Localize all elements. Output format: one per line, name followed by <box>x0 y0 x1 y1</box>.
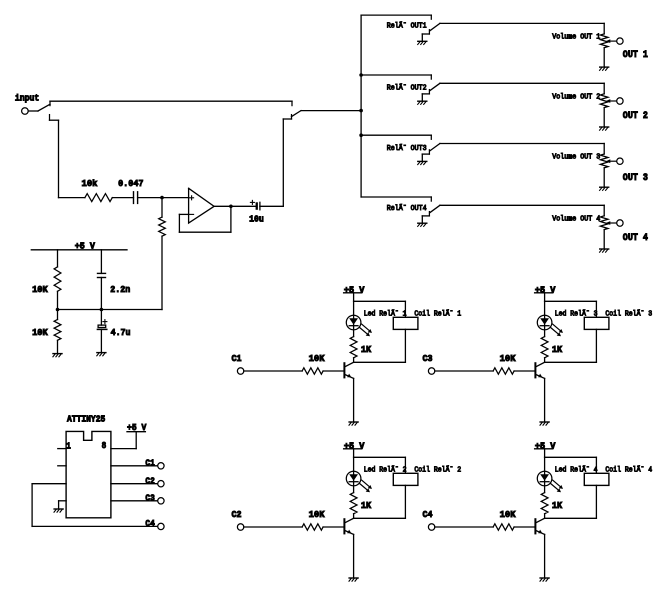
wire bus <box>360 15 362 197</box>
capacitor 2.2n <box>98 272 106 274</box>
relay contact K3 arm <box>430 144 440 151</box>
relay contact K3 NC tick <box>428 150 430 154</box>
ground row 2 <box>418 100 427 102</box>
transistor Q3 collector <box>536 362 545 367</box>
wire +5V tick <box>344 448 362 450</box>
relay coil RelÃ¨ 2 <box>393 473 418 485</box>
wire <box>31 484 33 527</box>
wire <box>161 236 163 309</box>
input jack switch arm <box>38 104 50 111</box>
wire <box>161 198 163 218</box>
wire <box>603 205 605 216</box>
terminal C4 <box>428 524 434 530</box>
wire +5V tick <box>127 431 145 433</box>
transistor Q1 base bar <box>343 363 345 377</box>
ground row 4 <box>418 222 427 224</box>
svg-text:8: 8 <box>102 440 107 451</box>
LED D3 <box>537 315 552 330</box>
wire <box>544 449 546 458</box>
transistor Q3 base bar <box>534 363 536 377</box>
terminal C1 <box>158 463 164 469</box>
wire to coil <box>354 456 406 458</box>
svg-text:input: input <box>15 92 39 103</box>
op-amp - input mark <box>190 213 194 215</box>
wire to coil <box>545 300 597 302</box>
node junction <box>229 205 233 209</box>
capacitor 10u polarity <box>250 201 254 203</box>
wire <box>100 310 102 326</box>
wire <box>603 168 605 187</box>
wire <box>544 514 546 519</box>
svg-text:2.2n: 2.2n <box>110 284 130 295</box>
LED arrow <box>551 484 560 491</box>
wire <box>545 361 597 363</box>
svg-text:10K: 10K <box>500 509 516 520</box>
resistor 10k <box>85 194 112 202</box>
terminal C4 <box>158 523 164 529</box>
svg-text:1K: 1K <box>361 344 372 355</box>
resistor 1K <box>350 337 357 358</box>
ground row 3 <box>418 160 427 162</box>
resistor 1K <box>541 493 548 514</box>
terminal C3 <box>158 498 164 504</box>
wire <box>57 250 59 267</box>
svg-text:C2: C2 <box>232 509 242 520</box>
potentiometer wiper <box>610 222 617 224</box>
ground emitter 2 <box>349 577 358 579</box>
output terminal OUT 3 <box>617 158 623 164</box>
wire <box>58 120 60 197</box>
relay contact K2 NC tick <box>428 90 430 94</box>
wire <box>435 370 493 372</box>
svg-text:Volume OUT 1: Volume OUT 1 <box>552 33 600 41</box>
wire row 3 out <box>440 143 604 145</box>
wire to coil <box>545 456 597 458</box>
svg-text:C3: C3 <box>145 493 155 504</box>
wire <box>544 293 546 302</box>
capacitor 4.7u <box>98 325 106 327</box>
LED D4 <box>537 471 552 486</box>
svg-text:0.047: 0.047 <box>118 178 143 189</box>
wire <box>353 514 355 519</box>
svg-text:ATTINY25: ATTINY25 <box>67 414 106 425</box>
resistor 1K <box>541 337 548 358</box>
wire row 3 common <box>361 134 431 136</box>
wire tick <box>291 101 293 105</box>
wire <box>353 301 355 336</box>
relay coil RelÃ¨ 3 <box>584 317 609 329</box>
relay contact K2 arm <box>430 83 440 90</box>
wire <box>112 197 133 199</box>
wire <box>603 83 605 94</box>
transistor Q4 collector <box>536 518 545 523</box>
LED arrow <box>360 484 369 491</box>
wire <box>353 449 355 458</box>
wire junction row <box>58 309 163 311</box>
relay contact K3 NC bracket <box>422 153 429 155</box>
wire pin8 +5V <box>111 448 136 450</box>
wire <box>244 526 302 528</box>
svg-text:10u: 10u <box>249 214 264 225</box>
wire <box>138 197 189 199</box>
wire <box>28 110 38 112</box>
wire op-amp output <box>214 205 256 207</box>
wire feedback <box>179 213 188 215</box>
svg-text:Volume OUT 3: Volume OUT 3 <box>552 154 600 162</box>
LED arrow <box>553 324 562 331</box>
node junction <box>100 308 104 312</box>
svg-text:C2: C2 <box>145 475 154 486</box>
terminal C2 <box>158 481 164 487</box>
svg-text:RelÃ¨ OUT4: RelÃ¨ OUT4 <box>387 204 427 213</box>
transistor Q2 collector <box>345 518 354 523</box>
relay contact K4 arm <box>430 205 440 212</box>
wire <box>323 526 344 528</box>
relay coil RelÃ¨ 1 <box>393 317 418 329</box>
capacitor 10u <box>256 202 258 210</box>
wire <box>514 370 535 372</box>
ground pot 2 <box>600 126 609 128</box>
svg-text:1K: 1K <box>552 500 563 511</box>
ground emitter 4 <box>540 577 549 579</box>
node junction <box>56 308 60 312</box>
ground pot 3 <box>600 186 609 188</box>
LED D2 <box>346 471 361 486</box>
resistor (bias) <box>159 217 166 236</box>
ground <box>97 352 106 354</box>
wire <box>100 278 102 310</box>
wire <box>544 457 546 492</box>
wire <box>435 526 493 528</box>
out jack NC contact <box>283 118 291 120</box>
wire <box>595 485 597 518</box>
wire <box>57 340 59 353</box>
svg-text:+5 V: +5 V <box>344 440 365 451</box>
svg-text:10K: 10K <box>309 509 325 520</box>
wire pin5 C3 <box>111 500 158 502</box>
relay contact K4 NC tick <box>428 212 430 216</box>
svg-text:1K: 1K <box>361 500 372 511</box>
wire +5V tick <box>535 448 553 450</box>
svg-text:10K: 10K <box>309 353 325 364</box>
svg-text:1: 1 <box>66 440 71 451</box>
ground pot 4 <box>600 248 609 250</box>
wire row 2 out <box>440 82 604 84</box>
wire <box>260 205 283 207</box>
wire <box>323 370 344 372</box>
wire <box>603 230 605 249</box>
input jack tip terminal <box>22 108 29 115</box>
wire <box>353 378 355 421</box>
svg-text:OUT 1: OUT 1 <box>623 50 648 61</box>
transistor Q2 base bar <box>343 519 345 533</box>
wire <box>603 23 605 34</box>
capacitor 0.047 <box>133 192 135 204</box>
svg-text:+5 V: +5 V <box>535 440 556 451</box>
potentiometer wiper <box>610 100 617 102</box>
wire pin1 <box>58 448 66 450</box>
wire row 1 common <box>361 14 431 16</box>
ground <box>53 353 62 355</box>
resistor 10K base 3 <box>493 368 514 374</box>
wire <box>57 310 59 320</box>
relay contact K4 NC bracket <box>422 215 429 217</box>
svg-text:Volume OUT 2: Volume OUT 2 <box>552 93 600 101</box>
wire row 1 out <box>440 22 604 24</box>
wire <box>545 517 597 519</box>
out jack switch arm <box>292 111 302 117</box>
svg-text:RelÃ¨ OUT1: RelÃ¨ OUT1 <box>387 22 427 31</box>
wire <box>354 517 406 519</box>
resistor 1K <box>350 493 357 514</box>
resistor 10K upper <box>54 267 61 291</box>
wire <box>230 206 232 232</box>
svg-text:RelÃ¨ OUT2: RelÃ¨ OUT2 <box>387 83 427 92</box>
svg-text:+5 V: +5 V <box>344 284 365 295</box>
transistor Q1 emitter <box>345 375 354 379</box>
capacitor 4.7u polarity <box>103 321 107 323</box>
wire <box>353 457 355 492</box>
potentiometer Volume OUT 2 <box>600 94 608 108</box>
wire <box>603 144 605 155</box>
wire row 4 common <box>361 196 431 198</box>
svg-text:10K: 10K <box>32 327 48 338</box>
svg-text:C1: C1 <box>232 353 242 364</box>
relay contact K1 arm <box>430 23 440 30</box>
svg-text:10K: 10K <box>32 284 48 295</box>
wire <box>595 329 597 362</box>
node junction <box>359 109 363 113</box>
wire <box>353 534 355 577</box>
transistor Q3 emitter <box>536 375 545 379</box>
wire +5V tick <box>344 292 362 294</box>
wire pin4 gnd <box>59 500 67 502</box>
wire <box>282 119 284 206</box>
node junction <box>359 133 363 137</box>
wire <box>244 370 302 372</box>
wire pin7 C1 <box>111 465 158 467</box>
svg-text:OUT 3: OUT 3 <box>623 173 648 184</box>
svg-text:4.7u: 4.7u <box>111 327 131 338</box>
LED arrow <box>362 480 371 487</box>
wire <box>59 197 85 199</box>
svg-text:OUT 4: OUT 4 <box>623 233 648 244</box>
op-amp U1 <box>189 188 215 223</box>
wire <box>100 250 102 274</box>
wire C4 net <box>32 525 158 527</box>
relay coil RelÃ¨ 4 <box>584 473 609 485</box>
potentiometer Volume OUT 1 <box>600 34 608 48</box>
op-amp + input mark <box>190 197 194 199</box>
potentiometer Volume OUT 3 <box>600 154 608 168</box>
wire pin3 <box>32 483 66 485</box>
LED arrow <box>551 328 560 335</box>
svg-text:C4: C4 <box>145 518 155 529</box>
IC ATTINY25 body <box>66 431 111 517</box>
transistor Q1 collector <box>345 362 354 367</box>
wire +5V tick <box>535 292 553 294</box>
output terminal OUT 4 <box>617 220 623 226</box>
svg-text:C3: C3 <box>423 353 433 364</box>
wire <box>100 329 102 352</box>
wire <box>354 361 406 363</box>
transistor Q2 emitter <box>345 531 354 535</box>
svg-text:10k: 10k <box>82 178 98 189</box>
relay contact K2 NC bracket <box>422 93 429 95</box>
svg-text:RelÃ¨ OUT3: RelÃ¨ OUT3 <box>387 144 427 153</box>
wire <box>301 110 361 112</box>
wire <box>353 293 355 302</box>
input jack NC contact <box>49 115 51 121</box>
wire row 4 out <box>440 204 604 206</box>
wire +5V rail <box>31 249 127 251</box>
resistor 10K base 2 <box>302 524 323 530</box>
node junction <box>160 196 164 200</box>
wire <box>544 358 546 363</box>
ground row 1 <box>418 40 427 42</box>
resistor 10K lower <box>54 320 61 341</box>
wire <box>353 358 355 363</box>
terminal C2 <box>237 524 243 530</box>
wire <box>178 214 180 232</box>
wire <box>179 231 231 233</box>
svg-text:1K: 1K <box>552 344 563 355</box>
svg-text:+5 V: +5 V <box>535 284 556 295</box>
ground emitter 3 <box>540 421 549 423</box>
LED D1 <box>346 315 361 330</box>
wire tick <box>49 101 51 105</box>
wire <box>603 48 605 67</box>
wire <box>544 301 546 336</box>
LED arrow <box>362 324 371 331</box>
wire <box>57 291 59 309</box>
relay contact K1 NC tick <box>428 30 430 34</box>
wire <box>404 329 406 362</box>
potentiometer wiper <box>610 160 617 162</box>
ground emitter 1 <box>349 421 358 423</box>
potentiometer Volume OUT 4 <box>600 216 608 230</box>
wire <box>544 534 546 577</box>
potentiometer wiper <box>610 40 617 42</box>
output terminal OUT 2 <box>617 98 623 104</box>
node junction <box>359 73 363 77</box>
transistor Q4 base bar <box>534 519 536 533</box>
resistor 10K base 1 <box>302 368 323 374</box>
wire pin2 <box>58 465 66 467</box>
wire <box>514 526 535 528</box>
LED arrow <box>553 480 562 487</box>
terminal C3 <box>428 368 434 374</box>
output terminal OUT 1 <box>617 38 623 44</box>
svg-text:Volume OUT 4: Volume OUT 4 <box>552 215 600 223</box>
relay contact K1 NC bracket <box>422 33 429 35</box>
wire <box>404 485 406 518</box>
svg-text:C4: C4 <box>423 509 433 520</box>
wire to coil <box>354 300 406 302</box>
wire pin6 C2 <box>111 483 158 485</box>
wire row 2 common <box>361 74 431 76</box>
transistor Q4 emitter <box>536 531 545 535</box>
LED arrow <box>360 328 369 335</box>
ground IC <box>54 508 63 510</box>
svg-text:10K: 10K <box>500 353 516 364</box>
svg-text:C1: C1 <box>145 458 155 469</box>
wire net A <box>50 100 292 102</box>
wire <box>603 108 605 127</box>
svg-text:OUT 2: OUT 2 <box>623 111 648 122</box>
terminal C1 <box>237 368 243 374</box>
wire <box>544 378 546 421</box>
ground pot 1 <box>600 66 609 68</box>
resistor 10K base 4 <box>493 524 514 530</box>
